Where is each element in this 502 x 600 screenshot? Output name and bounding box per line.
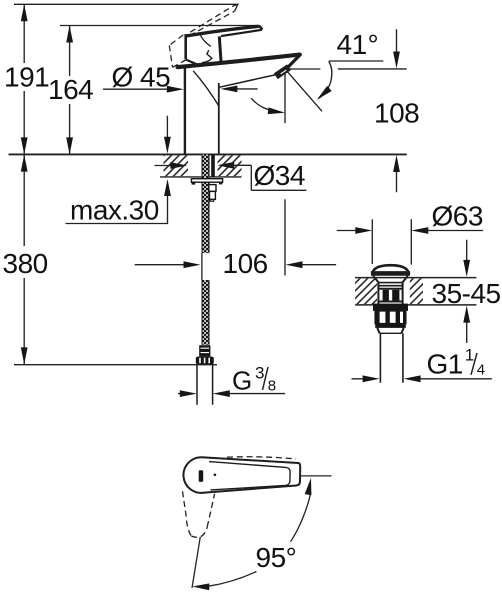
dim 41 underline bbox=[329, 60, 384, 62]
mounting nut step 1 bbox=[209, 185, 216, 192]
spout tip face bbox=[287, 54, 300, 68]
aerator bbox=[276, 67, 289, 76]
handle plan dashed top bbox=[227, 457, 296, 459]
dashed raised lever butt bbox=[169, 35, 186, 67]
arrowhead Ø34 right bbox=[170, 162, 187, 169]
mounting nut step 2 bbox=[210, 191, 216, 199]
dimension 191 line bbox=[23, 4, 25, 154]
castellation bars bbox=[375, 311, 406, 324]
shank and hose braided upper bbox=[202, 155, 210, 253]
washer lip left bbox=[192, 182, 196, 184]
lever end cap bbox=[258, 26, 262, 30]
arrowhead 380 up bbox=[21, 155, 28, 172]
drain dome rim bbox=[371, 271, 410, 276]
drain nut bottom band bbox=[375, 324, 406, 328]
drain slot right bbox=[392, 290, 399, 301]
svg-text:Ø34: Ø34 bbox=[254, 160, 305, 191]
arrowhead 108 up bbox=[393, 155, 400, 172]
95 arc lower bbox=[208, 572, 257, 587]
arrowhead Ø34 left bbox=[217, 162, 234, 169]
counter top line bbox=[9, 153, 407, 155]
drain counter bottom line bbox=[355, 304, 476, 306]
handle plan slot bbox=[199, 470, 204, 482]
41deg vertical reference at outlet bbox=[284, 69, 286, 275]
drain slot left bbox=[383, 290, 389, 301]
handle plan dot bbox=[214, 474, 217, 477]
arrowhead max30 up bbox=[164, 179, 171, 196]
dashed raised lever lower bbox=[190, 11, 235, 35]
arrowhead Ø45 right bbox=[167, 86, 184, 93]
svg-text:3: 3 bbox=[255, 363, 264, 382]
hose braided lower bbox=[202, 280, 210, 345]
svg-text:G: G bbox=[232, 366, 252, 396]
svg-text:G1: G1 bbox=[427, 349, 463, 380]
G3/8 fraction slash bbox=[263, 367, 269, 390]
cartridge dome curve bbox=[200, 35, 211, 46]
arrowhead Ø63 left bbox=[411, 227, 428, 234]
drain dome bbox=[373, 265, 408, 272]
drain body sides bbox=[378, 283, 402, 305]
mounting nut step 3 bbox=[210, 199, 214, 201]
arrowhead G38 left bbox=[213, 390, 230, 397]
arrowhead 106 left bbox=[286, 261, 303, 268]
arrowhead Ø45 left bbox=[220, 86, 237, 93]
svg-text:Ø 45: Ø 45 bbox=[112, 61, 171, 92]
108 dim arrows lines bbox=[396, 29, 398, 192]
spout underside bbox=[219, 75, 276, 88]
arrowhead 41 right arc bbox=[317, 86, 332, 100]
dashed raised lever upper bbox=[190, 6, 233, 32]
svg-text:max.30: max.30 bbox=[70, 195, 159, 226]
arrowhead 380 down bbox=[21, 347, 28, 364]
counter section hatch right of shank bbox=[218, 155, 242, 176]
handle swing arc bbox=[193, 71, 218, 106]
handle plan outline bbox=[183, 457, 300, 493]
max.30 arrow lines bbox=[166, 116, 168, 224]
dashed rotated handle end arc bbox=[191, 527, 207, 537]
dim G1 1/4 lines bbox=[352, 378, 492, 380]
hose end nut bbox=[196, 357, 214, 365]
dome squiggle bbox=[202, 50, 212, 62]
spout top edge bbox=[178, 55, 300, 68]
svg-text:°: ° bbox=[368, 29, 379, 60]
arrowhead Ø63 right bbox=[355, 227, 372, 234]
rotation reference line bbox=[192, 537, 200, 588]
drain counter hatch right bbox=[410, 278, 423, 304]
reference line handle top bbox=[60, 25, 260, 27]
svg-text:108: 108 bbox=[374, 97, 419, 128]
lever tip chamfer bbox=[186, 60, 198, 65]
bottom line (hose end level) bbox=[14, 364, 217, 366]
counter section hatch left of shank bbox=[164, 155, 189, 176]
G1 1/4 fraction slash bbox=[471, 353, 477, 375]
dimension 164 line bbox=[69, 26, 71, 155]
body right edge bbox=[218, 83, 220, 154]
arrowhead 3545 down bbox=[463, 260, 470, 277]
hose edge segment at dimension bbox=[201, 253, 203, 280]
arrowhead 191 up bbox=[21, 4, 28, 21]
svg-text:41: 41 bbox=[337, 29, 367, 60]
arrowhead 3545 up bbox=[463, 306, 470, 323]
drain taper bbox=[377, 328, 403, 333]
washer lip right bbox=[219, 182, 222, 184]
95 arc upper bbox=[291, 493, 311, 542]
svg-text:4: 4 bbox=[477, 361, 485, 378]
drain tailpipe bbox=[380, 333, 403, 382]
svg-text:1: 1 bbox=[465, 346, 474, 365]
drain slot band lines bbox=[378, 289, 402, 302]
svg-text:164: 164 bbox=[48, 74, 93, 105]
dashed rotated handle right bbox=[207, 494, 214, 527]
dim Ø34 lines bbox=[155, 165, 307, 190]
drain counter top line bbox=[355, 277, 476, 279]
dim Ø63 ext lines bbox=[372, 219, 411, 264]
lever front face bbox=[184, 34, 187, 59]
dashed rotated handle left bbox=[183, 491, 192, 536]
drain castellated nut bbox=[375, 311, 406, 324]
mounting stud bbox=[211, 155, 215, 177]
dim Ø63 lines bbox=[337, 230, 483, 232]
dim Ø45 lines bbox=[103, 88, 258, 90]
svg-text:8: 8 bbox=[268, 377, 276, 394]
arrowhead 95 arc bottom bbox=[192, 583, 209, 590]
dim 106 lines bbox=[135, 264, 336, 266]
drain cone sides bbox=[373, 276, 408, 283]
svg-text:191: 191 bbox=[4, 62, 49, 93]
41deg flow diagonal bbox=[286, 70, 322, 111]
arrowhead G114 right bbox=[363, 375, 380, 382]
dim G3/8 lines bbox=[178, 393, 285, 395]
handle tip reference line bbox=[300, 475, 332, 477]
washer under counter bbox=[191, 179, 222, 183]
drain counter hatch left bbox=[355, 278, 377, 304]
handle plan inner edge bbox=[209, 462, 290, 490]
lever top edge bbox=[186, 26, 258, 36]
arrowhead 41 left arc bbox=[268, 107, 285, 114]
body left edge bbox=[184, 67, 186, 155]
G3/8 connector tube bbox=[197, 365, 213, 405]
arrowhead 108 down bbox=[393, 52, 400, 69]
svg-text:106: 106 bbox=[223, 248, 268, 279]
counter bottom line bbox=[160, 176, 242, 178]
arrowhead max30 down bbox=[164, 137, 171, 154]
arrowhead 106 right bbox=[184, 261, 201, 268]
41deg left arc bbox=[251, 98, 282, 112]
drain nut top band bbox=[373, 304, 408, 311]
svg-text:380: 380 bbox=[3, 248, 48, 279]
outlet level reference line bbox=[286, 68, 407, 70]
arrowhead 164 up bbox=[66, 26, 73, 43]
top reference line (max handle height) bbox=[14, 3, 238, 5]
arrowhead G38 right bbox=[180, 390, 197, 397]
dim 35-45 arrow lines bbox=[466, 240, 468, 343]
dashed raised lever tip bbox=[233, 4, 238, 11]
svg-text:35-45: 35-45 bbox=[432, 278, 501, 309]
arrowhead 95 arc top bbox=[305, 478, 312, 495]
arrowhead 191 down bbox=[21, 137, 28, 154]
svg-text:Ø63: Ø63 bbox=[432, 200, 483, 231]
lever bottom edge bbox=[221, 30, 262, 36]
aerator highlight bbox=[281, 70, 287, 74]
dimension 380 line bbox=[23, 154, 25, 364]
drain body flange lines bbox=[378, 283, 404, 286]
lever neck front bbox=[219, 36, 221, 62]
41deg right arc bbox=[319, 61, 332, 98]
max.30 underline bbox=[66, 223, 169, 225]
svg-text:95°: 95° bbox=[256, 542, 297, 573]
arrowhead G114 left bbox=[404, 375, 421, 382]
hose ferrule bbox=[199, 345, 210, 356]
arrowhead 164 down bbox=[66, 137, 73, 154]
